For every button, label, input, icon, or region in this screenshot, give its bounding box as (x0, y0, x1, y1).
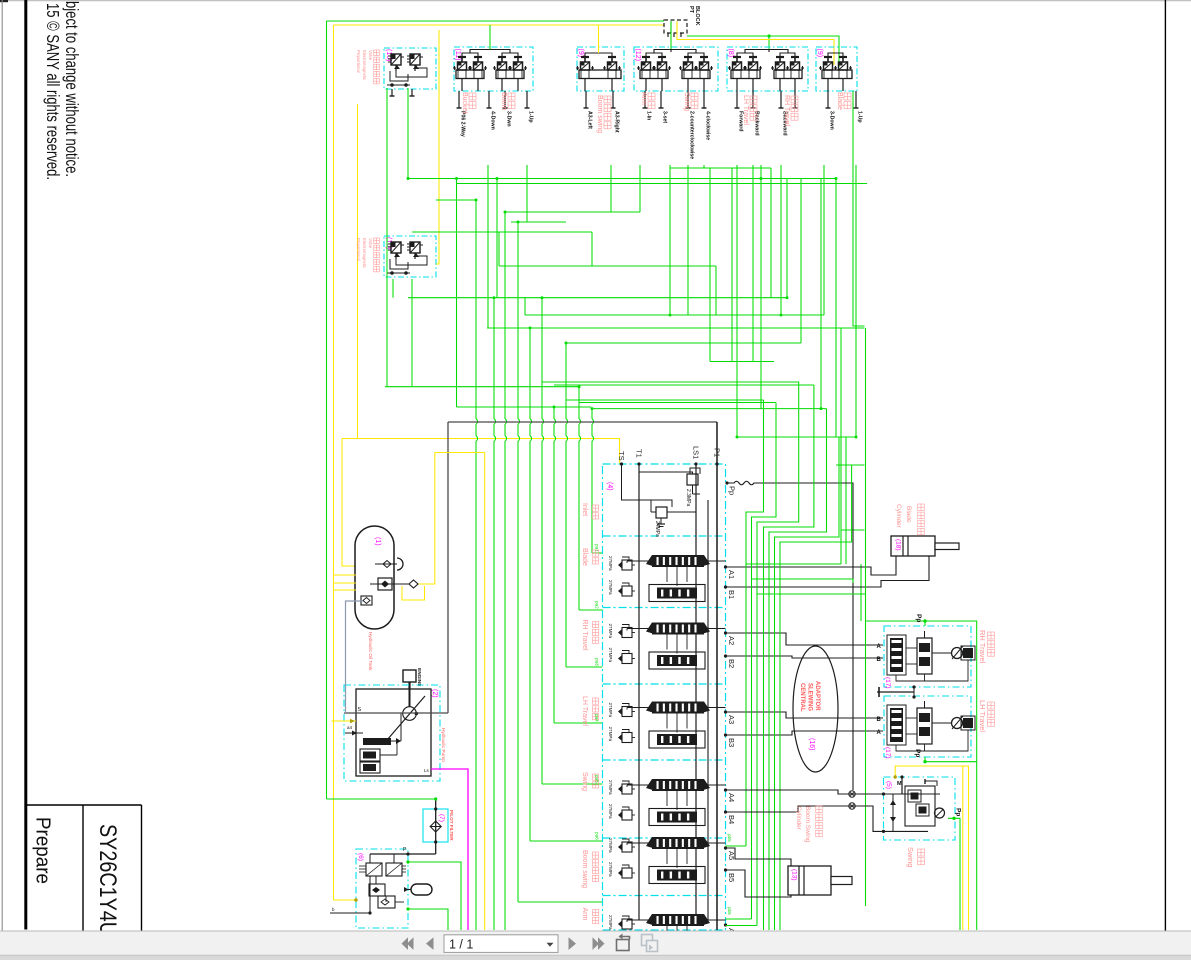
green mesh vertical x710 (709, 168, 711, 362)
svg-text:2-counterclockwise: 2-counterclockwise (689, 111, 695, 159)
svg-text:Arm: Arm (640, 92, 647, 105)
svg-text:(2): (2) (431, 689, 438, 698)
green mesh vertical x488 (487, 165, 489, 328)
boom swing cylinder (13) (788, 866, 831, 895)
svg-text:B5: B5 (727, 873, 736, 882)
green mesh vertical x771 (770, 168, 772, 298)
pilot valve pair arm (642, 56, 650, 58)
svg-text:27MPa: 27MPa (608, 915, 613, 930)
port stubs and labels group 8 (736, 91, 738, 108)
pilot accumulator (411, 884, 432, 895)
wire yellow tank stub y575 (334, 574, 357, 576)
port stubs group 10 top (391, 89, 393, 96)
pilot valve feed line (370, 853, 436, 855)
svg-text:(5): (5) (885, 781, 892, 789)
main valve section boom swing relief valves (622, 842, 632, 852)
main valve section blade secondary spool (649, 585, 705, 602)
swing motor (5) box (884, 777, 956, 840)
pilot reducing valve 2 (378, 896, 395, 908)
svg-text:Hydraulic Oil Tank: Hydraulic Oil Tank (367, 632, 373, 671)
wire green pilot drop x476 (476, 200, 478, 930)
svg-text:Proportional: Proportional (356, 50, 361, 73)
svg-text:a4: a4 (347, 725, 353, 730)
main valve section rh travel port A2 (724, 631, 727, 634)
svg-text:(16): (16) (808, 738, 815, 750)
tank suction strainer 1 (375, 563, 397, 565)
green mesh horizontal y465 right (836, 464, 865, 466)
svg-text:Proportional: Proportional (356, 238, 361, 261)
wire green pilot drop x554 (554, 407, 556, 723)
wire yellow U loop under tank (402, 586, 425, 600)
wire green staircase row y564 (746, 563, 841, 565)
svg-text:pa6: pa6 (595, 832, 600, 840)
pilot valve pair rh travel (776, 56, 784, 58)
main valve section boom swing port B5 (724, 868, 727, 871)
main valve internal vertical (707, 500, 709, 920)
PT block (664, 20, 687, 33)
svg-text:P06 2-Way: P06 2-Way (460, 111, 466, 137)
wire yellow second vertical to TS bus (357, 104, 359, 439)
blade cylinder (18) (891, 536, 935, 556)
green mesh vertical x737 (736, 165, 738, 437)
green mesh vertical x787 (786, 179, 788, 298)
main valve top port LS1 (694, 462, 697, 465)
wire green LH travel Pp (925, 757, 977, 762)
green mesh vertical x753 (752, 165, 754, 362)
svg-text:1-In: 1-In (646, 111, 652, 120)
main valve cyan border (603, 464, 726, 930)
green mesh horizontal bus y343 (566, 342, 801, 344)
wire green pilot riser x746 (746, 400, 764, 846)
wire yellow pilot pump suction (332, 720, 357, 722)
pilot reducing valve (369, 884, 385, 896)
svg-text:pa4: pa4 (595, 714, 600, 722)
svg-text:24MPa: 24MPa (654, 521, 660, 537)
wire black B2 to RH travel motor (726, 656, 884, 658)
schematic frame right border (1164, 0, 1166, 931)
green mesh horizontal bus y266 (499, 265, 716, 267)
svg-text:TS: TS (617, 451, 626, 461)
wire green pilot riser x757 (757, 387, 799, 926)
svg-text:27MPa: 27MPa (608, 727, 613, 742)
wire yellow top bus into PT block (334, 24, 665, 26)
svg-text:15 © SANY all rights reserved.: 15 © SANY all rights reserved. (43, 3, 63, 180)
main valve section swing secondary spool (649, 809, 705, 826)
main valve internal vertical T1 (638, 464, 640, 920)
wire green pilot riser x774.5 (775, 437, 840, 930)
pilot valve pair bucket (458, 56, 466, 58)
svg-text:LH Travel: LH Travel (581, 696, 588, 726)
main valve section arm port A6 (724, 923, 727, 926)
svg-text:27MPa: 27MPa (608, 556, 613, 571)
pilot solenoid valve 1 (366, 863, 382, 876)
wire green supply top-left to PT block (327, 20, 665, 22)
main valve cyan section divider y895.5 (603, 895, 726, 897)
svg-text:Inlet: Inlet (581, 503, 588, 516)
main valve port Pp (725, 481, 728, 484)
main valve section swing spool (652, 779, 704, 791)
svg-text:(17): (17) (884, 677, 891, 689)
main valve section blade spool (652, 555, 704, 567)
green junction dots mesh (591, 407, 594, 410)
main valve section lh travel piping (627, 707, 652, 709)
green mesh vertical x670 (669, 165, 671, 315)
green mesh vertical x801 (800, 179, 802, 344)
svg-text:pb5: pb5 (727, 834, 732, 842)
toolbar page combo box (444, 935, 558, 953)
main valve cyan section divider y536 (603, 535, 726, 537)
svg-text:27MPa: 27MPa (608, 804, 613, 819)
svg-text:Valve: Valve (368, 50, 373, 61)
green mesh horizontal bus y328 (487, 327, 865, 329)
svg-text:(12): (12) (634, 49, 641, 61)
engine box (403, 670, 416, 682)
main valve section rh travel piping (627, 628, 652, 630)
svg-text:Cylinder: Cylinder (795, 806, 802, 831)
green mesh horizontal bus y232 (412, 231, 592, 233)
svg-text:27MPa: 27MPa (608, 780, 613, 795)
svg-text:PILOT FILTER: PILOT FILTER (449, 810, 454, 841)
wire yellow return to tank with diamond (418, 453, 435, 585)
wire yellow right drop to pilot area (435, 452, 485, 454)
green mesh vertical x861 (860, 564, 862, 621)
pilot valve group (9b) box - Boom swing (577, 47, 624, 91)
svg-text:Blade: Blade (905, 506, 912, 523)
main valve section lh travel secondary spool (649, 731, 705, 748)
svg-text:pa3: pa3 (595, 658, 600, 666)
svg-text:Boom swing: Boom swing (581, 850, 588, 888)
wire green pilot drop x494 (494, 298, 496, 930)
svg-text:pa5: pa5 (595, 775, 600, 783)
wire yellow tank stub y590 (334, 589, 357, 591)
tank to pump gray drain (346, 601, 364, 713)
main valve cyan section divider y760 (603, 759, 726, 761)
wire green branch down to travel pilot group (768, 36, 770, 52)
wire green PT block to swing pilot group (670, 33, 672, 52)
svg-text:Pp: Pp (915, 614, 922, 622)
port stubs and labels group 12 (644, 91, 646, 108)
svg-text:(9): (9) (816, 49, 823, 58)
inlet internal piping (622, 464, 652, 500)
green hook pb5 (726, 845, 747, 847)
toolbar last-page button (593, 937, 600, 950)
svg-text:(13): (13) (791, 869, 798, 881)
title frame thick left border (24, 0, 27, 930)
pilot valve pair swing (684, 56, 692, 58)
green mesh horizontal bus y200 (436, 199, 476, 201)
green mesh vertical x846 (845, 437, 847, 564)
svg-text:1-Up: 1-Up (528, 111, 534, 123)
svg-text:27MPa: 27MPa (608, 838, 613, 853)
wire black A1 to blade cylinder (726, 556, 897, 575)
svg-text:B: B (877, 657, 882, 663)
green mesh horizontal bus y212 (504, 211, 640, 213)
green hook pb6 (726, 918, 752, 920)
svg-text:B1: B1 (727, 590, 736, 599)
svg-text:Blade: Blade (836, 92, 843, 110)
svg-text:Bucket: Bucket (461, 92, 468, 113)
main valve section lh travel spool (652, 702, 704, 714)
wire green staircase row y579 (752, 579, 854, 583)
green mesh vertical x497 (496, 179, 498, 298)
wire green pilot riser x751.5 (752, 403, 777, 920)
svg-text:RH Travel: RH Travel (581, 620, 588, 652)
svg-text:Swing: Swing (683, 92, 690, 111)
pilot valve pair blade (824, 56, 832, 58)
wire green pilot riser x763.5 (764, 385, 814, 930)
svg-text:27MPa: 27MPa (608, 703, 613, 718)
pilot valve group (11) box - Bucket/Boom (454, 47, 533, 91)
port stubs and labels group 11 (458, 91, 460, 108)
svg-text:A3-Right: A3-Right (614, 111, 620, 133)
wire yellow branch down to tank (342, 439, 356, 567)
wire black Pp pilot supply with flex hose (728, 481, 854, 790)
wire black B1 to blade cylinder (726, 556, 930, 587)
main valve assembly outer boundary (448, 421, 717, 423)
pump drain gray line (344, 712, 448, 714)
wire green pilot riser x769 (769, 409, 827, 930)
green mesh horizontal bus y408 (592, 408, 827, 410)
black drain line bottom left (330, 912, 370, 914)
port stubs and labels group 9b (585, 91, 587, 108)
tank strainer 2 (378, 578, 392, 590)
green mesh vertical x781 (780, 165, 782, 315)
svg-text:RH Travel: RH Travel (783, 95, 790, 127)
green mesh vertical x824 (823, 165, 825, 315)
svg-text:27MPa: 27MPa (608, 862, 613, 877)
wire green-yellow feed into boom swing group (598, 25, 600, 53)
pilot filter symbol (435, 799, 437, 854)
swing motor internals (901, 777, 903, 794)
green mesh horizontal bus y407 (457, 406, 592, 408)
pilot valve pair boom swing (581, 56, 589, 58)
main valve section boom swing piping (627, 842, 652, 844)
main valve top port P1 (715, 462, 718, 465)
main valve section boom swing spool (652, 837, 704, 849)
green mesh vertical x716 mid (715, 266, 717, 315)
svg-text:27MPa: 27MPa (608, 624, 613, 639)
svg-text:Swing: Swing (906, 847, 915, 867)
svg-text:A: A (877, 644, 882, 650)
svg-text:LS1: LS1 (692, 446, 701, 459)
svg-text:ADAPTOR: ADAPTOR (814, 681, 820, 711)
green mesh vertical x688 (687, 165, 689, 315)
wire black A5 to boom swing cylinder (726, 848, 792, 866)
main valve section blade port B1 (724, 585, 727, 588)
svg-text:A4: A4 (727, 793, 736, 802)
svg-text:Hydraulic Pump: Hydraulic Pump (440, 728, 446, 762)
svg-text:pa2: pa2 (595, 601, 600, 609)
green mesh row y382 (542, 382, 799, 387)
svg-text:ENGINE: ENGINE (416, 668, 422, 687)
green mesh horizontal bus y168 (670, 167, 771, 169)
toolbar next-page button (569, 937, 577, 950)
svg-text:Pp: Pp (914, 749, 921, 757)
green mesh vertical x499 upper (498, 232, 500, 266)
svg-text:(4): (4) (606, 482, 613, 491)
wire black A3 to LH travel motor (726, 712, 884, 718)
svg-text:27MPa: 27MPa (608, 580, 613, 595)
green mesh vertical x592 upper (591, 232, 593, 266)
green mesh horizontal bus y437 (737, 436, 856, 438)
svg-text:Pp: Pp (955, 808, 962, 816)
green mesh horizontal bus y222 (511, 221, 566, 223)
main valve section swing port B4 (724, 810, 727, 813)
wire green pilot drop x530 (530, 328, 532, 841)
main valve section swing piping (627, 784, 652, 786)
toolbar prev-page button (426, 937, 434, 950)
travel motor T drain (877, 691, 914, 693)
green mesh horizontal bus y297 (408, 297, 787, 299)
svg-text:CENTRAL: CENTRAL (799, 683, 805, 712)
svg-text:1-Up: 1-Up (857, 111, 863, 123)
svg-text:(17): (17) (884, 747, 891, 759)
svg-text:Blade: Blade (581, 548, 588, 566)
hydraulic pump body (356, 689, 431, 776)
main valve suction line vertical (447, 422, 449, 713)
green mesh horizontal bus y183 (457, 183, 868, 185)
main valve cyan section divider y684 (603, 683, 726, 685)
hydraulic pump group (2) cyan box (344, 685, 440, 781)
main valve section lh travel port A3 (724, 710, 727, 713)
svg-text:Swing: Swing (581, 772, 588, 791)
main valve top port TS (620, 462, 623, 465)
pilot control valve group (6) (356, 849, 408, 928)
svg-text:Electromagnetic: Electromagnetic (362, 238, 367, 268)
green mesh vertical x408 (407, 88, 409, 179)
wire magenta pump LS line (431, 769, 468, 930)
main valve section arm relief valves (622, 919, 632, 929)
svg-text:(18): (18) (895, 539, 902, 551)
wire green pilot drop x592 (592, 409, 594, 553)
main valve section blade port A1 (724, 565, 727, 568)
svg-text:A3: A3 (727, 715, 736, 724)
wire black B4 to swing motor (726, 806, 884, 831)
wire green pilot drop x518 (518, 222, 520, 902)
wire yellow PT block right branch to blade pilot group (677, 33, 834, 65)
svg-text:Cylinder: Cylinder (895, 504, 902, 529)
svg-text:1 / 1: 1 / 1 (449, 937, 473, 951)
svg-text:3-set: 3-set (662, 111, 668, 123)
title block box: Prepare cell (26, 804, 142, 806)
green mesh horizontal bus y307 (525, 314, 824, 316)
main valve section arm spool (652, 914, 704, 926)
svg-text:B: B (877, 717, 882, 723)
svg-text:A2: A2 (727, 636, 736, 645)
green mesh vertical x640 (639, 165, 641, 212)
green mesh vertical x456 (456, 179, 458, 408)
engine shaft (408, 682, 410, 689)
wire green pilot out 1 (408, 862, 461, 930)
svg-text:B2: B2 (727, 659, 736, 668)
svg-text:PT: PT (688, 6, 694, 14)
main valve top port T1 (637, 462, 640, 465)
swing motor Pp port (952, 817, 955, 820)
svg-text:Boom Swing: Boom Swing (804, 806, 811, 843)
main valve section swing relief valves (622, 784, 632, 794)
main valve section lh travel port B3 (724, 733, 727, 736)
svg-text:SLEWING: SLEWING (807, 683, 813, 711)
main valve internal vertical LS1 (695, 464, 697, 920)
top page edge line (0, 0, 1191, 2)
green hook pb7 (726, 925, 758, 927)
main valve section boom swing port A5 (724, 846, 727, 849)
pilot valve pair boom (498, 56, 506, 58)
svg-text:Electromagnetic: Electromagnetic (362, 50, 367, 80)
svg-text:bject to change without notice: bject to change without notice. (62, 1, 82, 177)
proportional electromagnetic valve group (10) middle (384, 236, 436, 277)
green mesh horizontal bus y178 (408, 178, 836, 180)
green mesh vertical x387 (386, 88, 388, 387)
wire black A2 to RH travel motor (726, 633, 884, 645)
svg-text:(9): (9) (577, 49, 584, 58)
pilot filter (7) (423, 809, 448, 842)
port stubs and labels group 9 (827, 91, 829, 108)
toolbar first-page button (402, 937, 409, 950)
main valve section swing port A4 (724, 788, 727, 791)
main valve section arm piping (627, 919, 652, 921)
green mesh vertical x525 mid (524, 298, 526, 315)
green mesh row y385 (554, 384, 814, 386)
svg-text:(7): (7) (438, 814, 445, 822)
green mesh horizontal bus y386 (385, 386, 579, 388)
svg-text:(11): (11) (454, 49, 461, 61)
wire green swing Pp down (948, 818, 960, 930)
central slewing adaptor ellipse (16) (793, 646, 838, 772)
toolbar background (0, 931, 1191, 960)
wire yellow TS supply bus (342, 439, 620, 465)
wire black A4 to swing motor (726, 790, 884, 794)
svg-text:4-Down: 4-Down (490, 111, 496, 130)
main valve section rh travel relief valves (622, 628, 632, 638)
pump circle and swash plate (403, 707, 417, 721)
wire yellow swing M feed loop (895, 766, 968, 930)
wire black B5 to boom swing cylinder (726, 870, 792, 897)
svg-text:Prepare: Prepare (32, 817, 54, 884)
inlet relief valve 2.3MPa (687, 474, 698, 485)
proportional electromagnetic valve group (10) top (384, 48, 436, 89)
left page edge line (1, 0, 3, 931)
green mesh vertical x856 (855, 165, 857, 437)
svg-text:LH Travel: LH Travel (978, 700, 987, 732)
svg-text:B4: B4 (727, 815, 736, 824)
svg-text:pb6: pb6 (727, 907, 732, 915)
pilot valve group (12) box - Arm/Swing (634, 47, 718, 91)
pilot valve pair lh travel (733, 56, 741, 58)
main valve section rh travel port B2 (724, 654, 727, 657)
svg-text:SY26C1Y4U: SY26C1Y4U (94, 824, 121, 936)
pilot solenoid valve 2 (386, 863, 402, 876)
main valve section blade relief valves (622, 560, 632, 570)
svg-text:A1: A1 (727, 570, 736, 579)
svg-text:Arm: Arm (581, 908, 588, 921)
wire yellow pilot T return (334, 899, 357, 901)
svg-text:(1): (1) (374, 537, 381, 546)
pump regulator internals (363, 738, 391, 745)
green mesh vertical x761 (760, 165, 762, 409)
pilot valve group (8) box - LH/RH Travel (727, 47, 808, 91)
green mesh horizontal y530 right (841, 529, 865, 531)
green mesh vertical x732 (731, 168, 733, 362)
main valve P1 line (716, 422, 718, 930)
wire yellow left bus down to pilot valve (333, 25, 335, 900)
svg-text:Pp: Pp (728, 486, 737, 495)
green mesh vertical x836 (835, 179, 837, 438)
svg-text:(8): (8) (727, 49, 734, 58)
wire green middle prop valve outputs (411, 279, 413, 387)
green mesh vertical x611 (610, 165, 612, 212)
wire green vertical x841 (840, 328, 842, 564)
